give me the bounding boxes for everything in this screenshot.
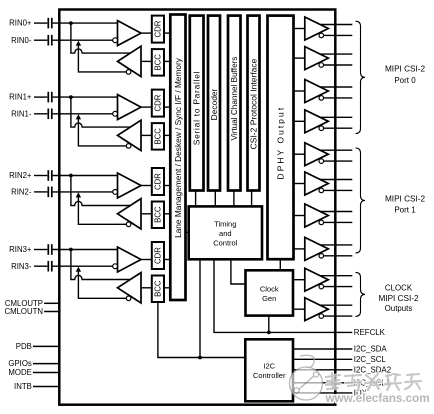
brace MIPI CSI-2 Port 1 [356,148,366,253]
CDR block ch2 [152,168,164,195]
svg-text:Control: Control [213,238,238,247]
wire B2 inv out to RIN2- [78,196,126,224]
inverting input bubble A3 [113,264,118,269]
wire B3 noninv out to RIN3+ (with hop) [71,250,130,280]
wire BCC ch0 to lane mgmt [164,60,170,62]
wire RIN0+ lead [34,22,47,24]
wire clock out 0 out+ [320,275,352,277]
inverting output bubble port1 D2 [319,220,324,225]
wire CDR ch0 to lane mgmt [164,32,170,34]
inverting output bubble port0 D2 [319,96,324,101]
wire port0 D3 out- [324,127,353,129]
output buffer port1 D0 [305,143,329,166]
decoder block [208,16,220,191]
svg-text:DPHY Output: DPHY Output [275,106,285,180]
svg-text:CDR: CDR [154,20,163,37]
svg-text:www.elecfans.com: www.elecfans.com [325,392,430,405]
input buffer A1 [118,95,142,120]
svg-text:CMLOUTN: CMLOUTN [4,307,43,316]
clock gen block [246,270,294,315]
wire port0 D2 out- [324,97,353,99]
brace clock outputs [356,272,366,316]
junction RIN0+ [69,21,73,25]
svg-text:Port 0: Port 0 [394,76,416,85]
wire feed to output buffer port1 D0 [294,153,305,155]
pin PDB [16,342,60,351]
inverting output bubble port0 D1 [319,63,324,68]
BCC block ch3 [152,276,164,303]
pin CMLOUTP [5,299,59,308]
svg-text:Outputs: Outputs [385,304,413,313]
wire port1 D0 out+ [320,149,352,151]
output buffer port0 D2 [305,80,329,103]
wire BCC ch1 to B1 [141,134,152,136]
wire B0 inv out to RIN0- [78,45,126,72]
output buffer port0 D1 [305,47,329,70]
arrowhead B1 to RIN1- [76,114,81,119]
svg-text:RIN3+: RIN3+ [9,245,32,254]
svg-text:CDR: CDR [154,247,163,264]
wire clock out 1 out+ [320,304,352,306]
svg-text:RIN1+: RIN1+ [9,93,32,102]
svg-text:RIN1-: RIN1- [11,109,32,118]
lane management block [170,15,185,301]
wire feed to output buffer clock out 1 [293,308,305,310]
junction clock gen / REFCLK [267,331,271,335]
junction RIN2+ [69,174,73,178]
wire port0 D0 out+ [320,24,352,26]
svg-text:Serial to Parallel: Serial to Parallel [192,71,202,145]
CDR block ch1 [152,90,164,117]
svg-text:Clock: Clock [260,284,279,293]
inverting output bubble B1 [126,144,131,149]
wire BCC ch3 to B3 [141,287,152,289]
wire BCC ch1 to lane mgmt [164,134,170,136]
pin GPIOs [8,359,59,368]
svg-text:BCC: BCC [154,128,163,145]
pin CMLOUTN [4,307,59,316]
CDR block ch3 [152,242,164,269]
back channel driver B3 [118,273,142,303]
wire BCC ch3 to lane mgmt [164,287,170,289]
wire feed to output buffer port0 D2 [294,90,305,92]
output buffer port1 D1 [305,172,329,195]
output buffer port0 D0 [305,17,329,40]
wire RIN1- entry [53,113,113,115]
wire RIN0- entry [53,39,113,41]
wire port0 D0 out- [324,34,353,36]
wire I2C_SDA2 [293,369,352,371]
svg-text:Lane Management / Deskew / Syn: Lane Management / Deskew / Sync I/F / Me… [173,57,183,238]
svg-text:RIN0+: RIN0+ [9,19,32,28]
capacitor RIN1+ AC coupling [48,92,52,103]
wire feed to output buffer port1 D1 [294,183,305,185]
wire BCC ch0 to B0 [141,60,152,62]
label MIPI CSI-2 Port 0 [385,65,425,86]
svg-text:Decoder: Decoder [209,88,219,120]
wire lane mgmt to timing and control [186,231,189,233]
wire IDX [293,392,352,394]
inverting output bubble B3 [126,296,131,301]
wire port0 D2 out+ [320,86,352,88]
inverting output bubble port0 D0 [319,33,324,38]
wire port0 D1 out- [324,64,353,66]
wire A1 out to CDR [141,106,152,108]
wire I2C_SCL [293,358,352,360]
wire B3 inv out to RIN3- [78,271,126,299]
svg-text:Port 1: Port 1 [394,206,416,215]
label clock MIPI CSI-2 outputs [378,284,418,314]
back channel driver B2 [118,199,142,229]
svg-text:RIN2+: RIN2+ [9,171,32,180]
output buffer port1 D2 [305,204,329,227]
wire port0 D1 out+ [320,53,352,55]
wire feed to output buffer port0 D3 [294,120,305,122]
junction RIN3+ [69,248,73,252]
svg-text:CDR: CDR [154,173,163,190]
inverting input bubble A2 [113,190,118,195]
svg-text:BCC: BCC [154,206,163,223]
svg-text:GPIOs: GPIOs [8,359,31,368]
wire BCC ch2 to lane mgmt [164,213,170,215]
arrowhead B2 to RIN2- [76,192,81,197]
svg-text:MODE: MODE [8,368,31,377]
output buffer port0 D3 [305,110,329,133]
svg-text:and: and [219,229,232,238]
svg-text:INTB: INTB [14,382,32,391]
inverting output bubble B0 [126,70,131,75]
wire port0 D3 out+ [320,116,352,118]
wire RIN3+ lead [34,249,47,251]
arrowhead B3 to RIN3- [76,267,81,272]
wire feed to output buffer clock out 0 [293,279,305,281]
back channel driver B1 [118,120,142,150]
wire B1 noninv out to RIN1+ (with hop) [71,97,130,127]
wire REFCLK net [214,259,352,332]
wire A2 out to CDR [141,185,152,187]
wire feed to output buffer port0 D0 [294,28,305,30]
wire B0 noninv out to RIN0+ (with hop) [71,23,130,53]
capacitor RIN0+ AC coupling [48,18,52,29]
svg-text:REFCLK: REFCLK [354,328,386,337]
pin MODE [8,368,59,377]
wire B1 inv out to RIN1- [78,118,126,146]
timing and control block [189,206,262,259]
capacitor RIN2+ AC coupling [48,170,52,181]
capacitor RIN1- AC coupling [48,109,52,120]
wire B2 noninv out to RIN2+ (with hop) [71,176,130,206]
wire feed to output buffer port1 D2 [294,215,305,217]
inverting output bubble port0 D3 [319,126,324,131]
svg-text:I2C_SCL: I2C_SCL [354,355,387,364]
wire decoder to timing [214,191,216,207]
wire RIN1- lead [34,113,47,115]
arrowhead B0 to RIN0- [76,41,81,46]
wire port1 D2 out+ [320,211,352,213]
watermark chinese characters [326,373,421,390]
label MIPI CSI-2 Port 1 [385,195,425,215]
inverting output bubble port1 D3 [319,254,324,259]
BCC block ch2 [152,202,164,229]
svg-text:BCC: BCC [154,280,163,297]
wire RIN2+ lead [34,175,47,177]
capacitor RIN2- AC coupling [48,187,52,198]
svg-text:Timing: Timing [214,219,236,228]
svg-text:Virtual Channel Buffers: Virtual Channel Buffers [230,57,239,141]
virtual channel buffers block [228,16,241,191]
svg-text:BCC: BCC [154,54,163,71]
watermark elecfans logo [290,355,323,400]
wire RIN1+ lead [34,96,47,98]
wire port1 D2 out- [324,221,353,223]
svg-text:CDR: CDR [154,94,163,111]
capacitor RIN3- AC coupling [48,261,52,272]
CSI-2 protocol interface block [248,16,260,191]
wire clock gen to REFCLK [268,316,270,333]
svg-text:PDB: PDB [16,342,32,351]
inverting output bubble clock out 1 [319,314,324,319]
svg-text:CSI-2 Protocol Interface: CSI-2 Protocol Interface [248,58,258,149]
wire feed to output buffer port1 D3 [294,248,305,250]
wire RIN2- entry [53,191,113,193]
output buffer clock out 1 [305,298,329,321]
wire dphy output to clock gen [279,259,281,270]
input buffer A3 [118,247,142,272]
wire feed to output buffer port0 D1 [294,57,305,59]
wire port1 D3 out+ [320,244,352,246]
svg-text:I2C_SDA2: I2C_SDA2 [354,365,391,374]
input buffer A2 [118,173,142,198]
wire RIN1+ entry [53,96,118,98]
serial to parallel block [190,16,204,191]
svg-text:Controller: Controller [253,371,286,380]
wire CDR ch2 to lane mgmt [164,185,170,187]
svg-text:RIN2-: RIN2- [11,188,32,197]
wire RIN3- lead [34,265,47,267]
BCC block ch1 [152,123,164,150]
DPHY output block [268,16,294,260]
I2C controller block [245,339,293,401]
input buffer A0 [118,21,142,46]
svg-text:MIPI CSI-2: MIPI CSI-2 [385,65,425,74]
wire A3 out to CDR [141,259,152,261]
wire RIN2+ entry [53,175,118,177]
wire I2C_SCL2 [293,382,352,384]
BCC block ch0 [152,49,164,76]
wire RIN0- lead [34,39,47,41]
wire csi-2 protocol to timing [251,191,253,207]
wire serial-to-parallel to timing [195,191,197,207]
brace MIPI CSI-2 Port 0 [356,21,366,133]
svg-text:RIN0-: RIN0- [11,36,32,45]
pin INTB [14,382,59,391]
wire RIN3+ entry [53,249,118,251]
inverting output bubble port1 D1 [319,188,324,193]
capacitor RIN0- AC coupling [48,35,52,46]
wire port1 D3 out- [324,255,353,257]
svg-text:MIPI CSI-2: MIPI CSI-2 [378,294,418,303]
output buffer port1 D3 [305,237,329,260]
wire clock out 0 out- [324,286,353,288]
CDR block ch0 [152,16,164,43]
wire I2C_SDA [293,348,352,350]
svg-text:MIPI CSI-2: MIPI CSI-2 [385,195,425,204]
output buffer clock out 0 [305,268,329,291]
capacitor RIN3+ AC coupling [48,244,52,255]
inverting output bubble B2 [126,222,131,227]
wire CDR ch1 to lane mgmt [164,106,170,108]
svg-text:I2C: I2C [263,362,275,371]
svg-text:Gen: Gen [262,294,276,303]
wire BCC ch2 to B2 [141,213,152,215]
svg-text:RIN3-: RIN3- [11,262,32,271]
wire RIN0+ entry [53,22,118,24]
wire timing to I2C net [199,259,201,357]
main chip boundary [59,10,335,405]
wire virtual channel buffers to timing [233,191,235,207]
inverting output bubble clock out 0 [319,284,324,289]
inverting output bubble port1 D0 [319,159,324,164]
wire timing to clock gen [231,259,246,284]
wire port1 D1 out- [324,189,353,191]
wire port1 D1 out+ [320,179,352,181]
inverting input bubble A0 [113,38,118,43]
svg-text:I2C_SDA: I2C_SDA [354,345,388,354]
junction RIN1+ [69,95,73,99]
wire clock out 1 out- [324,315,353,317]
wire CDR ch3 to lane mgmt [164,259,170,261]
svg-text:CLOCK: CLOCK [385,284,413,293]
wire RIN2- lead [34,191,47,193]
back channel driver B0 [118,46,142,76]
wire RIN3- entry [53,265,113,267]
junction timing / bcc-i2c net [198,356,202,360]
wire BCC ch3 to I2C controller [158,302,245,358]
wire A0 out to CDR [141,32,152,34]
wire port1 D0 out- [324,160,353,162]
inverting input bubble A1 [113,111,118,116]
